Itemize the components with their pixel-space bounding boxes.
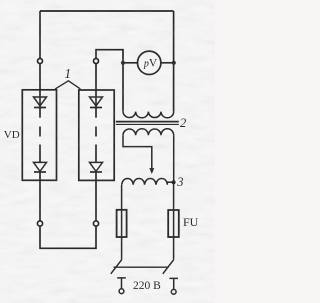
diode VD bottom-left xyxy=(34,162,47,171)
transformer core xyxy=(116,121,179,123)
wire dashed (omitted diodes) left xyxy=(39,127,41,137)
wire fuse FU2 to switch xyxy=(173,237,175,260)
wire right lower segment xyxy=(95,145,97,163)
slider arrow onto winding 3 xyxy=(149,168,154,174)
wire primary left end jog to slider xyxy=(123,135,152,169)
terminal bottom-left xyxy=(37,221,42,226)
switch blade left xyxy=(111,260,122,274)
switch fixed contact right xyxy=(169,278,178,289)
wire dashed (omitted diodes) right xyxy=(95,127,97,137)
junction dot A (voltmeter left) xyxy=(121,61,125,65)
switch fixed contact left xyxy=(117,278,126,289)
diode VD top-left xyxy=(34,97,47,106)
wire left below lower diode to terminal xyxy=(39,171,41,221)
wire node 3 down to fuse FU2 xyxy=(173,182,175,210)
wire right branch into right diode box xyxy=(95,64,97,118)
wire left vertical from top bus to terminal xyxy=(39,11,41,58)
terminal top-left xyxy=(38,59,43,64)
wire top bus xyxy=(40,10,174,12)
wire fuse FU1 to switch xyxy=(121,237,123,260)
transformer winding 2 secondary (upper) xyxy=(123,112,174,118)
diode box VD left xyxy=(22,90,56,181)
winding 3 (tapped autotransformer winding) xyxy=(122,178,168,184)
switch tie bar xyxy=(114,266,169,268)
wire right vertical from top bus down to winding 2 xyxy=(173,11,175,112)
wire bottom bus xyxy=(40,226,96,248)
wire right below lower diode to terminal xyxy=(95,171,97,221)
junction dot node 3 xyxy=(172,180,176,184)
fuse FU1 xyxy=(117,210,127,237)
wire stub winding3 to node 3 xyxy=(167,181,174,183)
voltmeter pV xyxy=(138,51,161,74)
switch blade right xyxy=(163,260,174,274)
wire voltmeter left lead xyxy=(123,62,138,64)
wire voltmeter right lead xyxy=(161,62,174,64)
wire left lower segment xyxy=(39,145,41,163)
terminal bottom-right xyxy=(93,221,98,226)
paper background xyxy=(0,0,215,303)
diode VD top-right xyxy=(90,97,103,106)
terminal top-right xyxy=(94,59,99,64)
wire winding3 left end down to fuse FU1 xyxy=(121,185,123,210)
diode VD bottom-right xyxy=(90,162,103,171)
wire left branch into left diode box xyxy=(39,64,41,118)
wire primary right end down to node 3 xyxy=(173,135,175,182)
paper show-through noise (decorative) xyxy=(0,0,215,303)
junction dot B (voltmeter right) xyxy=(172,61,176,65)
wire jog from top-right terminal to voltmeter node xyxy=(96,50,123,112)
callout leader for label 1 xyxy=(55,81,80,89)
fuse FU2 xyxy=(168,210,179,237)
diode box VD right xyxy=(79,90,114,180)
transformer winding primary (lower) xyxy=(123,129,174,135)
